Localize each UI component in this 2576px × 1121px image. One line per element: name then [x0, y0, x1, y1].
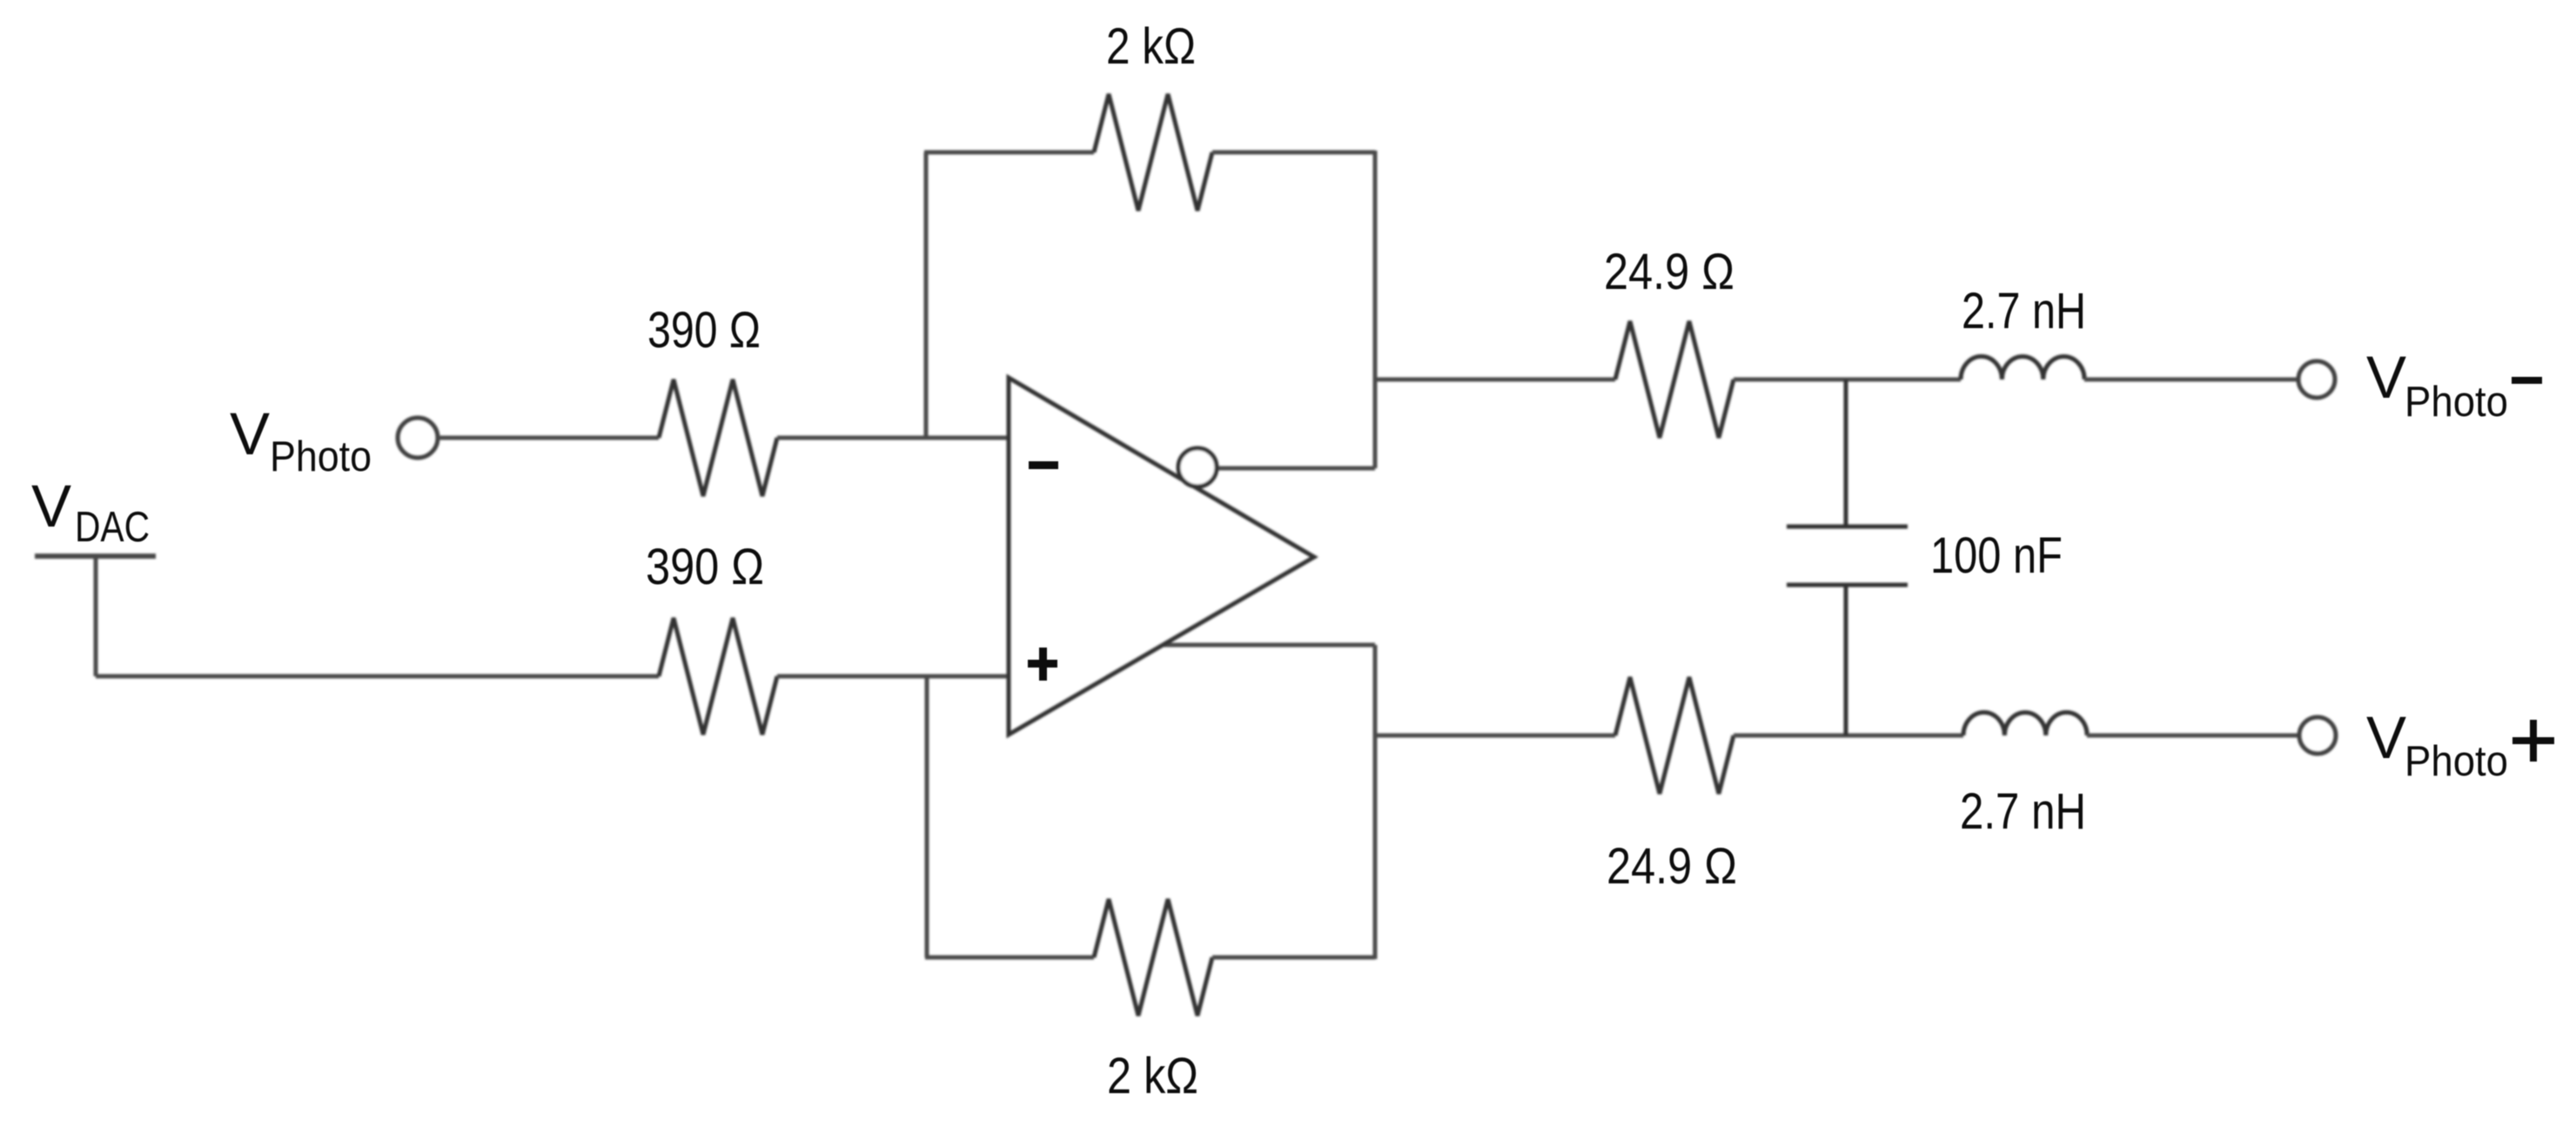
svg-text:Photo: Photo [2405, 738, 2508, 785]
wire VDAC to R2 [96, 675, 659, 679]
wire feedback right vertical bottom [1373, 645, 1378, 959]
wire feedback left vertical top [924, 152, 929, 438]
resistor R4 2kohm bottom [1094, 899, 1212, 1016]
op-amp minus sign [1029, 461, 1058, 469]
wire feedback bottom rail right [1212, 956, 1375, 960]
terminal VPhoto+ [2299, 717, 2336, 754]
terminal VPhoto input [398, 418, 438, 458]
resistor R1 390ohm top [659, 379, 777, 496]
svg-text:DAC: DAC [75, 504, 150, 551]
svg-text:2 kΩ: 2 kΩ [1106, 18, 1196, 75]
resistor R2 390ohm bottom [659, 618, 777, 735]
wire L2 to terminal [2087, 734, 2298, 738]
wire R6 to node B [1734, 734, 1963, 738]
wire L1 to terminal [2084, 378, 2298, 382]
inductor L1 2.7nH top [1961, 357, 2084, 379]
svg-text:100 nF: 100 nF [1930, 527, 2063, 584]
VDAC source bar [35, 554, 156, 559]
svg-text:2 kΩ: 2 kΩ [1107, 1048, 1198, 1104]
wire feedback right vertical top [1373, 151, 1378, 468]
wire bubble to vertical [1217, 467, 1375, 471]
svg-text:390 Ω: 390 Ω [646, 539, 764, 595]
wire VDAC vertical [94, 556, 98, 676]
svg-text:2.7 nH: 2.7 nH [1960, 783, 2086, 840]
svg-text:24.9 Ω: 24.9 Ω [1604, 244, 1734, 300]
resistor R5 24.9ohm top [1615, 321, 1734, 438]
resistor R3 2kohm top [1094, 94, 1212, 211]
wire feedback top rail left [924, 151, 1094, 155]
op-amp plus sign [1028, 648, 1057, 681]
resistor R6 24.9ohm bottom [1615, 677, 1734, 794]
wire VPhoto to R1 [438, 436, 659, 440]
wire top output branch [1375, 378, 1615, 382]
wire R5 to node A [1734, 378, 1961, 382]
op-amp inverting output bubble [1178, 448, 1217, 487]
wire feedback left vertical bottom [925, 676, 929, 957]
svg-text:24.9 Ω: 24.9 Ω [1607, 838, 1737, 895]
svg-text:V: V [2366, 704, 2406, 771]
op-amp U1 triangle [1009, 378, 1314, 735]
wire R1 to op-amp minus [777, 436, 1009, 440]
svg-text:Photo: Photo [270, 433, 372, 480]
wire feedback top rail right [1212, 151, 1375, 155]
wire bottom output branch [1375, 734, 1615, 738]
terminal VPhoto- [2298, 361, 2335, 398]
svg-text:V: V [230, 400, 270, 467]
svg-text:390 Ω: 390 Ω [647, 302, 761, 359]
inductor L2 2.7nH bottom [1963, 713, 2087, 736]
svg-text:Photo: Photo [2405, 379, 2508, 426]
svg-text:V: V [31, 473, 71, 540]
wire R2 to op-amp plus [777, 675, 1009, 679]
wire feedback bottom rail left [925, 956, 1094, 960]
capacitor C1 100nF [1787, 379, 1908, 735]
svg-text:V: V [2366, 344, 2406, 411]
svg-text:2.7 nH: 2.7 nH [1962, 283, 2086, 339]
wire op-amp bottom output [1164, 643, 1375, 648]
